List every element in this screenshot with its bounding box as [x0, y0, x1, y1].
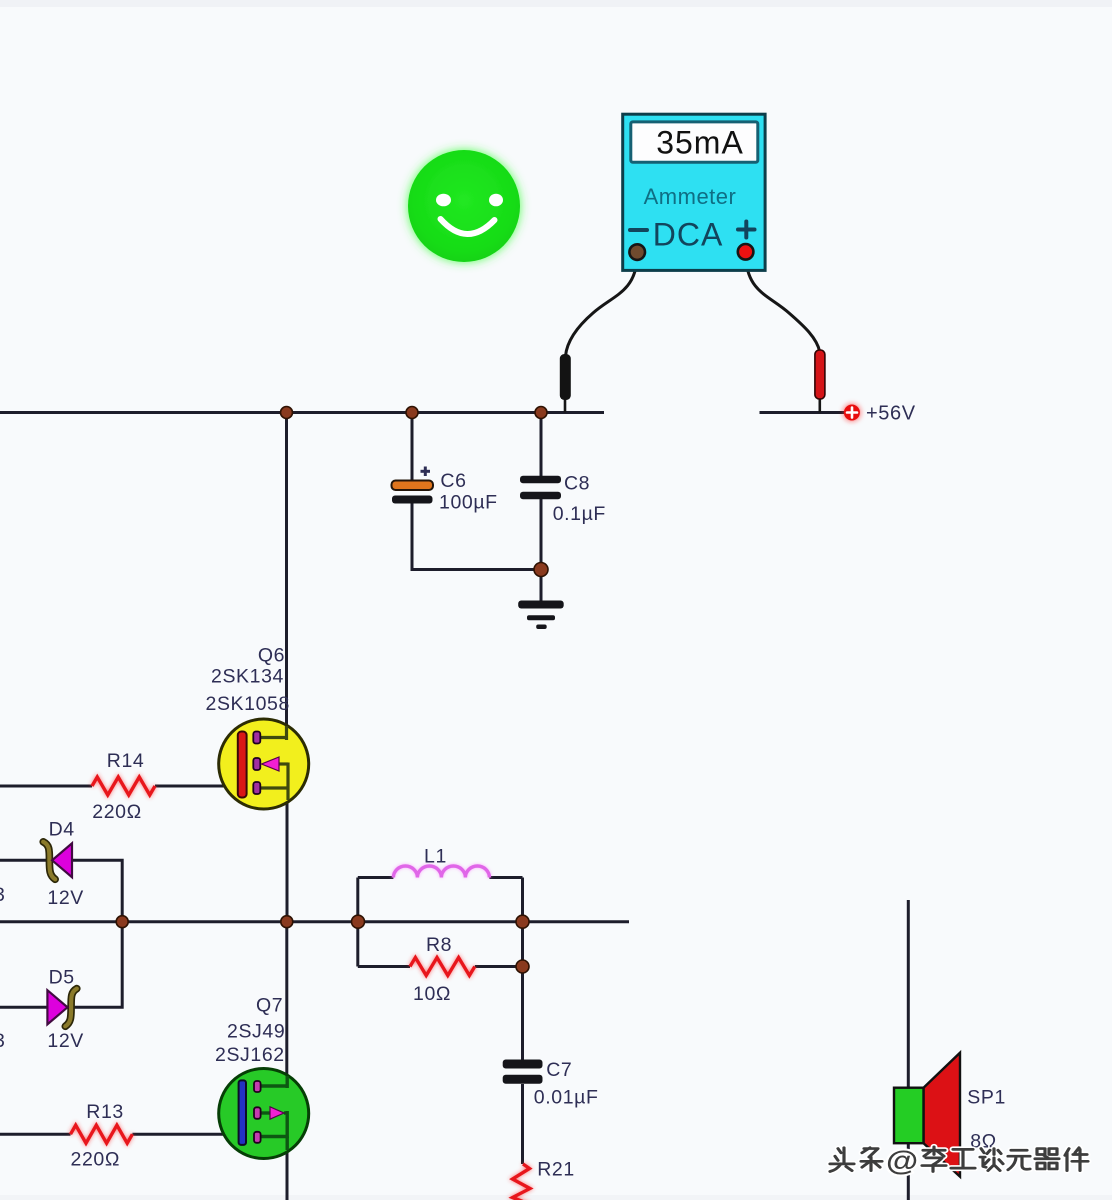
svg-text:L1: L1	[424, 846, 447, 868]
svg-text:R21: R21	[537, 1158, 575, 1180]
svg-text:D5: D5	[49, 966, 75, 988]
svg-text:220Ω: 220Ω	[92, 801, 142, 823]
svg-text:0.1µF: 0.1µF	[553, 503, 606, 525]
svg-text:C6: C6	[440, 470, 466, 492]
svg-text:SP1: SP1	[967, 1087, 1006, 1109]
svg-text:Q7: Q7	[256, 995, 283, 1017]
svg-text:0.01µF: 0.01µF	[534, 1087, 599, 1109]
svg-text:12V: 12V	[47, 1030, 84, 1052]
svg-text:100µF: 100µF	[439, 492, 498, 514]
svg-text:R13: R13	[86, 1101, 124, 1123]
svg-text:R8: R8	[426, 934, 452, 956]
svg-text:@: @	[886, 1145, 918, 1176]
svg-text:Ammeter: Ammeter	[644, 184, 737, 209]
svg-text:Q6: Q6	[258, 645, 285, 667]
svg-text:C8: C8	[564, 473, 590, 495]
svg-text:C7: C7	[546, 1059, 572, 1081]
svg-text:D4: D4	[49, 819, 75, 841]
svg-text:10Ω: 10Ω	[413, 983, 451, 1005]
svg-text:220Ω: 220Ω	[71, 1149, 121, 1171]
svg-text:2SK134: 2SK134	[211, 666, 284, 688]
svg-text:3: 3	[0, 1030, 5, 1052]
svg-text:R14: R14	[107, 750, 145, 772]
svg-text:+56V: +56V	[866, 403, 916, 425]
svg-text:35mA: 35mA	[656, 125, 744, 161]
svg-text:2SJ49: 2SJ49	[227, 1020, 285, 1042]
svg-text:DCA: DCA	[653, 217, 724, 253]
svg-text:12V: 12V	[47, 887, 84, 909]
svg-text:2SK1058: 2SK1058	[206, 693, 290, 715]
svg-text:2SJ162: 2SJ162	[215, 1044, 285, 1066]
svg-text:3: 3	[0, 884, 5, 906]
